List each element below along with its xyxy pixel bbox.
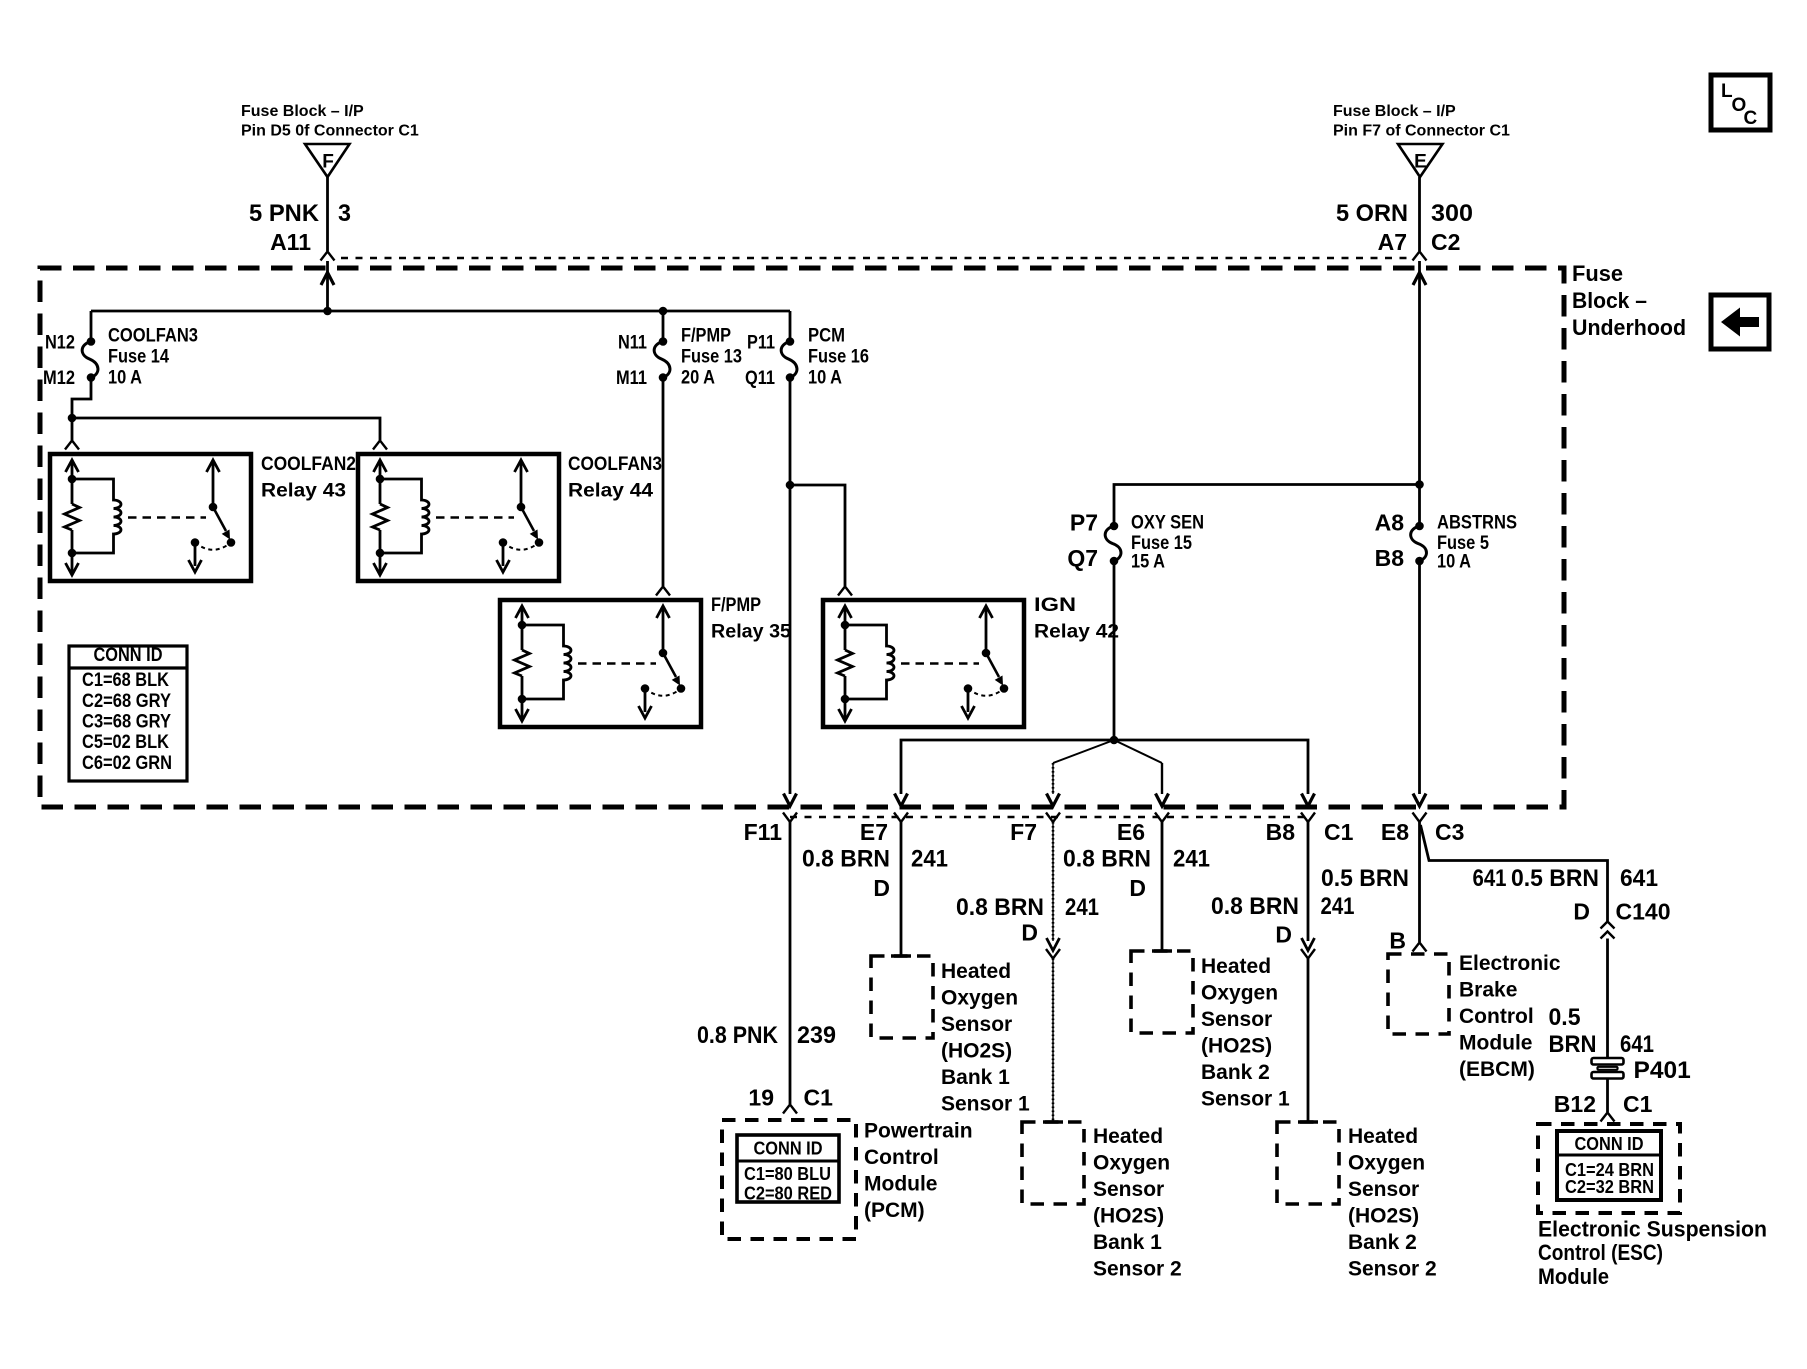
svg-text:Oxygen: Oxygen: [1201, 982, 1278, 1005]
svg-text:Bank 1: Bank 1: [1093, 1231, 1162, 1254]
svg-text:Bank 2: Bank 2: [1201, 1061, 1270, 1084]
svg-text:(HO2S): (HO2S): [941, 1040, 1012, 1063]
relay COOLFAN2 Relay 43: coil supply line with arrows: [71, 460, 74, 504]
svg-text:Oxygen: Oxygen: [941, 987, 1018, 1010]
relay F/PMP Relay 35: switch pivot: [659, 649, 668, 658]
svg-text:E6: E6: [1117, 819, 1145, 845]
inline connector C140: [1601, 922, 1615, 929]
svg-text:P401: P401: [1634, 1057, 1691, 1084]
terminal into relay 42: [838, 587, 852, 596]
svg-text:Module: Module: [1538, 1264, 1609, 1289]
wire E7 to HO2S B1S1: [900, 822, 903, 956]
node: bus/fuse13 junction: [659, 307, 668, 316]
connector C1 fine dashed line (bottom): [790, 816, 1308, 818]
svg-text:D: D: [1129, 875, 1146, 901]
svg-text:Relay 44: Relay 44: [568, 481, 653, 502]
inline connector crossing (F7/D): [1047, 938, 1060, 951]
fuse 5 ABSTRNS 10A: [1415, 522, 1424, 531]
svg-text:Underhood: Underhood: [1572, 315, 1686, 340]
relay COOLFAN3 Relay 44: output contact: [499, 538, 508, 547]
svg-text:D: D: [1021, 920, 1038, 946]
relay F/PMP Relay 35: actuation dashed link: [578, 662, 656, 664]
svg-text:Pin D5 0f Connector C1: Pin D5 0f Connector C1: [241, 123, 419, 140]
svg-text:(EBCM): (EBCM): [1459, 1058, 1535, 1081]
wire E6 to HO2S B2S1: [1161, 822, 1164, 951]
relay F/PMP Relay 35: switch blade with arrowhead: [663, 653, 676, 677]
svg-text:C3: C3: [1435, 819, 1464, 845]
relay F/PMP Relay 35: box: [500, 600, 701, 727]
svg-text:239: 239: [797, 1022, 836, 1049]
wire C3 branch to ESC: [1421, 825, 1608, 921]
svg-text:F7: F7: [1010, 819, 1037, 845]
exit arrow at x=1419.5: [1413, 794, 1426, 807]
relay COOLFAN2 Relay 43: switch common line with arrow: [212, 460, 215, 507]
svg-text:CONN ID: CONN ID: [1575, 1134, 1644, 1154]
svg-text:C1: C1: [1324, 819, 1354, 845]
svg-text:Fuse 16: Fuse 16: [808, 347, 869, 368]
relay IGN Relay 42: switch common line with arrow: [985, 606, 988, 653]
svg-text:M11: M11: [616, 368, 647, 389]
svg-text:Sensor 2: Sensor 2: [1348, 1258, 1437, 1281]
svg-text:Relay 43: Relay 43: [261, 481, 346, 502]
node: OXY SEN branch junction: [1415, 480, 1424, 489]
wire: branch to IGN relay 42: [790, 485, 845, 586]
relay COOLFAN3 Relay 44: resistor: [373, 504, 388, 530]
svg-text:300: 300: [1431, 200, 1473, 227]
svg-text:Heated: Heated: [941, 960, 1011, 983]
svg-text:P7: P7: [1070, 510, 1098, 536]
wire: fan-out diagonal to F7: [1053, 740, 1114, 763]
svg-text:Control (ESC): Control (ESC): [1538, 1240, 1663, 1265]
relay IGN Relay 42: actuation dashed link: [901, 662, 979, 664]
relay IGN Relay 42: resistor: [838, 650, 853, 676]
svg-text:Block –: Block –: [1572, 288, 1647, 313]
wire: fuse 15 down to fan-out node: [1113, 561, 1116, 740]
relay COOLFAN2 Relay 43: actuation dashed link: [128, 516, 206, 518]
wire B8 lower: [1307, 959, 1310, 1123]
relay COOLFAN3 Relay 44: coil supply line with arrows: [379, 460, 382, 504]
svg-text:B: B: [1389, 928, 1406, 954]
wire: fuse 13 down to relay 35: [662, 378, 665, 587]
svg-text:C140: C140: [1616, 899, 1671, 925]
svg-text:0.8 BRN: 0.8 BRN: [802, 846, 890, 873]
svg-text:C1: C1: [804, 1085, 834, 1111]
terminal into relay 44: [373, 441, 387, 450]
relay COOLFAN2 Relay 43: switch blade with arrowhead: [213, 507, 226, 531]
relay COOLFAN3 Relay 44: actuation dashed link: [436, 516, 514, 518]
svg-text:ABSTRNS: ABSTRNS: [1437, 513, 1517, 534]
LOC icon: [1711, 75, 1770, 130]
svg-text:(HO2S): (HO2S): [1201, 1035, 1272, 1058]
wire: main feed bus: [91, 310, 790, 313]
HO2S Bank1 Sensor1 box: [891, 954, 911, 958]
CONN ID table (fuse block underhood): [69, 646, 187, 781]
wire: branch to relay 44: [72, 418, 380, 440]
svg-text:0.8 BRN: 0.8 BRN: [1211, 893, 1299, 920]
terminal into relay 35: [656, 587, 670, 596]
relay IGN Relay 42: output contact: [964, 684, 973, 693]
node: IGN relay branch: [786, 481, 795, 490]
svg-text:E: E: [1414, 152, 1427, 173]
fuse 13 F/PMP 20A: [659, 337, 668, 346]
connector terminal below box at x=1053: [1046, 813, 1060, 823]
relay COOLFAN2 Relay 43: coil: [72, 479, 121, 553]
HO2S Bank2 Sensor2 box: [1298, 1120, 1318, 1124]
terminal into ESC: [1601, 1113, 1615, 1122]
relay COOLFAN3 Relay 44: junction dots: [376, 475, 385, 484]
svg-text:Powertrain: Powertrain: [864, 1120, 973, 1143]
node: relay branch junction: [68, 414, 77, 423]
svg-text:Sensor: Sensor: [941, 1013, 1012, 1036]
svg-text:Brake: Brake: [1459, 979, 1517, 1002]
svg-text:COOLFAN3: COOLFAN3: [108, 326, 198, 347]
relay COOLFAN3 Relay 44: switch blade with arrowhead: [521, 507, 534, 531]
svg-text:Relay 35: Relay 35: [711, 622, 791, 643]
wire: fuse 14 to relays: [72, 378, 91, 441]
wire from triangle E down to A7: [1418, 177, 1421, 251]
svg-text:Sensor: Sensor: [1348, 1178, 1419, 1201]
svg-text:Fuse: Fuse: [1572, 261, 1623, 286]
pass-through grommet P401: [1592, 1058, 1624, 1065]
connector terminal below box at x=790: [783, 813, 797, 823]
svg-text:C1=68 BLK: C1=68 BLK: [82, 670, 169, 691]
svg-text:(HO2S): (HO2S): [1348, 1205, 1419, 1228]
svg-text:IGN: IGN: [1034, 595, 1076, 616]
relay IGN Relay 42: switch blade with arrowhead: [986, 653, 999, 677]
svg-text:Heated: Heated: [1348, 1125, 1418, 1148]
svg-text:Oxygen: Oxygen: [1093, 1152, 1170, 1175]
wire: bus down to fuse 13: [662, 311, 665, 342]
wire: fan-out right to B8: [1114, 740, 1308, 794]
svg-text:C1=80 BLU: C1=80 BLU: [744, 1164, 831, 1184]
svg-text:C5=02 BLK: C5=02 BLK: [82, 732, 169, 753]
exit arrow at x=901: [895, 794, 908, 807]
svg-text:A7: A7: [1378, 229, 1407, 255]
relay IGN Relay 42: blade tip contact: [1000, 684, 1009, 693]
svg-text:A11: A11: [270, 229, 311, 255]
svg-text:B12: B12: [1554, 1091, 1596, 1117]
PCM CONN ID table: [737, 1135, 839, 1202]
wire C140 to P401: [1606, 939, 1609, 1059]
relay F/PMP Relay 35: resistor: [515, 650, 530, 676]
svg-text:Heated: Heated: [1201, 955, 1271, 978]
relay COOLFAN2 Relay 43: box: [50, 454, 251, 581]
svg-text:F: F: [322, 152, 334, 173]
wire: A11 entry into box: [321, 273, 334, 286]
svg-text:Control: Control: [1459, 1005, 1534, 1028]
svg-text:Fuse Block – I/P: Fuse Block – I/P: [241, 103, 364, 120]
relay COOLFAN3 Relay 44: blade tip contact: [535, 538, 544, 547]
svg-text:241: 241: [911, 846, 948, 873]
node: bus/A11 junction: [323, 307, 332, 316]
svg-text:Module: Module: [864, 1173, 938, 1196]
relay F/PMP Relay 35: output contact: [641, 684, 650, 693]
connector terminal E8/C3: [1413, 813, 1427, 823]
svg-text:C2=68 GRY: C2=68 GRY: [82, 691, 171, 712]
relay COOLFAN3 Relay 44: switch pivot: [517, 503, 526, 512]
wire F7 (dotted) lower: [1052, 959, 1054, 1123]
svg-text:Sensor: Sensor: [1201, 1008, 1272, 1031]
svg-text:F/PMP: F/PMP: [681, 326, 731, 347]
wire: bus down to fuse 16: [789, 311, 792, 342]
svg-text:0.8 PNK: 0.8 PNK: [697, 1022, 778, 1049]
connector terminal below box at x=1308: [1301, 813, 1315, 823]
svg-text:0.8 BRN: 0.8 BRN: [1063, 846, 1151, 873]
svg-text:241: 241: [1321, 893, 1355, 920]
wire: fan-out left to E7: [901, 740, 1114, 794]
terminal into PCM: [783, 1105, 797, 1114]
svg-text:N11: N11: [618, 333, 647, 354]
svg-text:Bank 2: Bank 2: [1348, 1231, 1417, 1254]
svg-text:(HO2S): (HO2S): [1093, 1205, 1164, 1228]
svg-text:15 A: 15 A: [1131, 552, 1165, 573]
exit arrow at x=1053: [1047, 794, 1060, 807]
svg-text:A8: A8: [1375, 510, 1405, 536]
relay IGN Relay 42: box: [823, 600, 1024, 727]
svg-text:C2: C2: [1431, 229, 1460, 255]
wire F11 down to PCM: [789, 822, 792, 1104]
svg-text:Heated: Heated: [1093, 1125, 1163, 1148]
exit arrow at x=1162: [1156, 794, 1169, 807]
HO2S Bank2 Sensor1 box: [1152, 949, 1172, 953]
back-arrow icon: [1711, 295, 1769, 349]
svg-text:Sensor 2: Sensor 2: [1093, 1258, 1182, 1281]
connector terminal at A7/C2: [1413, 252, 1427, 261]
svg-text:0.5 BRN: 0.5 BRN: [1511, 865, 1599, 892]
relay F/PMP Relay 35: output line with arrow: [644, 689, 647, 713]
svg-text:641: 641: [1473, 865, 1507, 892]
svg-text:B8: B8: [1375, 545, 1405, 571]
svg-text:Q11: Q11: [745, 368, 775, 389]
terminal into relay 43: [65, 441, 79, 450]
svg-text:F11: F11: [744, 819, 783, 845]
relay COOLFAN3 Relay 44: output line with arrow: [502, 543, 505, 567]
svg-text:Fuse 13: Fuse 13: [681, 347, 742, 368]
relay COOLFAN3 Relay 44: travel dashed arc: [503, 543, 539, 550]
svg-text:5 ORN: 5 ORN: [1336, 200, 1408, 227]
svg-text:PCM: PCM: [808, 326, 845, 347]
fuse 14 COOLFAN3 10A: [87, 337, 96, 346]
PCM dashed box: [722, 1120, 856, 1239]
svg-text:D: D: [873, 875, 890, 901]
connector C1 fine dashed line (top): [341, 257, 1407, 259]
svg-text:641: 641: [1620, 1031, 1654, 1058]
wire: bus down to fuse 14: [90, 311, 93, 342]
svg-text:Q7: Q7: [1067, 545, 1098, 571]
svg-text:0.8 BRN: 0.8 BRN: [956, 894, 1044, 921]
relay COOLFAN3 Relay 44: switch common line with arrow: [520, 460, 523, 507]
svg-text:10 A: 10 A: [808, 368, 842, 389]
svg-text:0.5 BRN: 0.5 BRN: [1321, 865, 1409, 892]
relay IGN Relay 42: travel dashed arc: [968, 689, 1004, 696]
relay COOLFAN3 Relay 44: box: [358, 454, 559, 581]
relay COOLFAN2 Relay 43: resistor: [65, 504, 80, 530]
exit arrow at x=1308: [1302, 794, 1315, 807]
wire: A7 entry down to fuse 5: [1413, 273, 1426, 286]
ESC CONN ID table: [1557, 1131, 1661, 1200]
relay F/PMP Relay 35: coil: [522, 625, 571, 699]
terminal into EBCM: [1413, 943, 1427, 952]
exit arrow at x=790: [784, 794, 797, 807]
svg-text:COOLFAN3: COOLFAN3: [568, 454, 662, 475]
svg-text:0.5: 0.5: [1549, 1004, 1581, 1031]
fuse 15 OXY SEN 15A: [1110, 522, 1119, 531]
relay F/PMP Relay 35: coil supply line with arrows: [521, 606, 524, 650]
node: fan-out junction: [1110, 736, 1119, 745]
wire P401 to ESC: [1606, 1079, 1609, 1113]
wire from triangle F down to A11: [326, 177, 329, 251]
svg-text:C2=80 RED: C2=80 RED: [744, 1184, 832, 1204]
svg-text:19: 19: [748, 1085, 774, 1111]
relay IGN Relay 42: coil supply line with arrows: [844, 606, 847, 650]
svg-text:C3=68 GRY: C3=68 GRY: [82, 712, 171, 733]
relay IGN Relay 42: output line with arrow: [967, 689, 970, 713]
relay COOLFAN2 Relay 43: switch pivot: [209, 503, 218, 512]
connector terminal at A11: [321, 252, 335, 261]
ESC dashed box: [1538, 1124, 1680, 1213]
relay F/PMP Relay 35: junction dots: [518, 621, 527, 630]
fuse 16 PCM 10A: [786, 337, 795, 346]
svg-text:C6=02 GRN: C6=02 GRN: [82, 753, 172, 774]
svg-text:Electronic: Electronic: [1459, 952, 1561, 975]
relay COOLFAN2 Relay 43: travel dashed arc: [195, 543, 231, 550]
svg-text:Relay 42: Relay 42: [1034, 622, 1119, 643]
svg-text:Oxygen: Oxygen: [1348, 1152, 1425, 1175]
svg-text:OXY SEN: OXY SEN: [1131, 513, 1204, 534]
EBCM dashed box: [1388, 954, 1449, 1034]
relay COOLFAN2 Relay 43: output line with arrow: [194, 543, 197, 567]
svg-text:20 A: 20 A: [681, 368, 715, 389]
relay IGN Relay 42: switch pivot: [982, 649, 991, 658]
connector triangle E: [1398, 144, 1443, 177]
svg-text:Fuse Block – I/P: Fuse Block – I/P: [1333, 103, 1456, 120]
svg-text:5 PNK: 5 PNK: [249, 200, 319, 227]
svg-text:E7: E7: [860, 819, 888, 845]
svg-text:10 A: 10 A: [108, 368, 142, 389]
relay IGN Relay 42: coil: [845, 625, 894, 699]
svg-text:10 A: 10 A: [1437, 552, 1471, 573]
wire: branch to fuse 15: [1114, 485, 1420, 527]
svg-text:CONN ID: CONN ID: [754, 1139, 823, 1159]
svg-text:Sensor: Sensor: [1093, 1178, 1164, 1201]
svg-text:BRN: BRN: [1549, 1031, 1597, 1058]
relay F/PMP Relay 35: blade tip contact: [677, 684, 686, 693]
svg-text:241: 241: [1065, 894, 1099, 921]
relay IGN Relay 42: junction dots: [841, 621, 850, 630]
relay COOLFAN2 Relay 43: output contact: [191, 538, 200, 547]
svg-text:CONN ID: CONN ID: [94, 645, 163, 666]
relay COOLFAN2 Relay 43: junction dots: [68, 475, 77, 484]
svg-text:N12: N12: [45, 333, 75, 354]
svg-text:C2=32 BRN: C2=32 BRN: [1565, 1177, 1654, 1197]
svg-text:Sensor 1: Sensor 1: [941, 1093, 1030, 1116]
svg-text:Sensor 1: Sensor 1: [1201, 1088, 1290, 1111]
svg-text:D: D: [1573, 899, 1590, 925]
relay F/PMP Relay 35: switch common line with arrow: [662, 606, 665, 653]
svg-text:Electronic Suspension: Electronic Suspension: [1538, 1217, 1767, 1242]
svg-text:Module: Module: [1459, 1032, 1533, 1055]
svg-text:E8: E8: [1381, 819, 1409, 845]
inline connector crossing (B8/D): [1302, 938, 1315, 951]
svg-text:C: C: [1744, 108, 1758, 129]
HO2S Bank1 Sensor2 box: [1043, 1120, 1063, 1124]
svg-text:241: 241: [1173, 846, 1210, 873]
svg-text:P11: P11: [747, 333, 775, 354]
relay F/PMP Relay 35: travel dashed arc: [645, 689, 681, 696]
svg-text:F/PMP: F/PMP: [711, 595, 761, 616]
Fuse Block - Underhood dashed boundary: [40, 268, 1564, 807]
wire: fuse 16 down to F11 exit: [789, 378, 792, 795]
svg-text:Control: Control: [864, 1146, 939, 1169]
svg-text:Pin F7 of Connector C1: Pin F7 of Connector C1: [1333, 123, 1510, 140]
svg-text:Fuse 14: Fuse 14: [108, 347, 169, 368]
svg-text:641: 641: [1620, 865, 1658, 892]
connector triangle F: [305, 144, 350, 177]
svg-text:D: D: [1275, 922, 1292, 948]
svg-text:C1: C1: [1623, 1091, 1653, 1117]
wire E8 down to EBCM: [1418, 822, 1421, 942]
wire: fan-out diagonal to E6: [1114, 740, 1162, 763]
svg-text:B8: B8: [1266, 819, 1296, 845]
svg-text:M12: M12: [43, 368, 75, 389]
svg-text:(PCM): (PCM): [864, 1199, 925, 1222]
svg-text:3: 3: [338, 200, 351, 227]
connector terminal below box at x=901: [894, 813, 908, 823]
connector terminal below box at x=1162: [1155, 813, 1169, 823]
wire F7 (dotted) upper: [1052, 822, 1054, 941]
svg-text:COOLFAN2: COOLFAN2: [261, 454, 356, 475]
relay COOLFAN3 Relay 44: coil: [380, 479, 429, 553]
svg-text:Bank 1: Bank 1: [941, 1066, 1010, 1089]
wire: fuse 5 down to E8 exit: [1418, 561, 1421, 794]
relay COOLFAN2 Relay 43: blade tip contact: [227, 538, 236, 547]
wire B8 upper: [1307, 822, 1310, 941]
